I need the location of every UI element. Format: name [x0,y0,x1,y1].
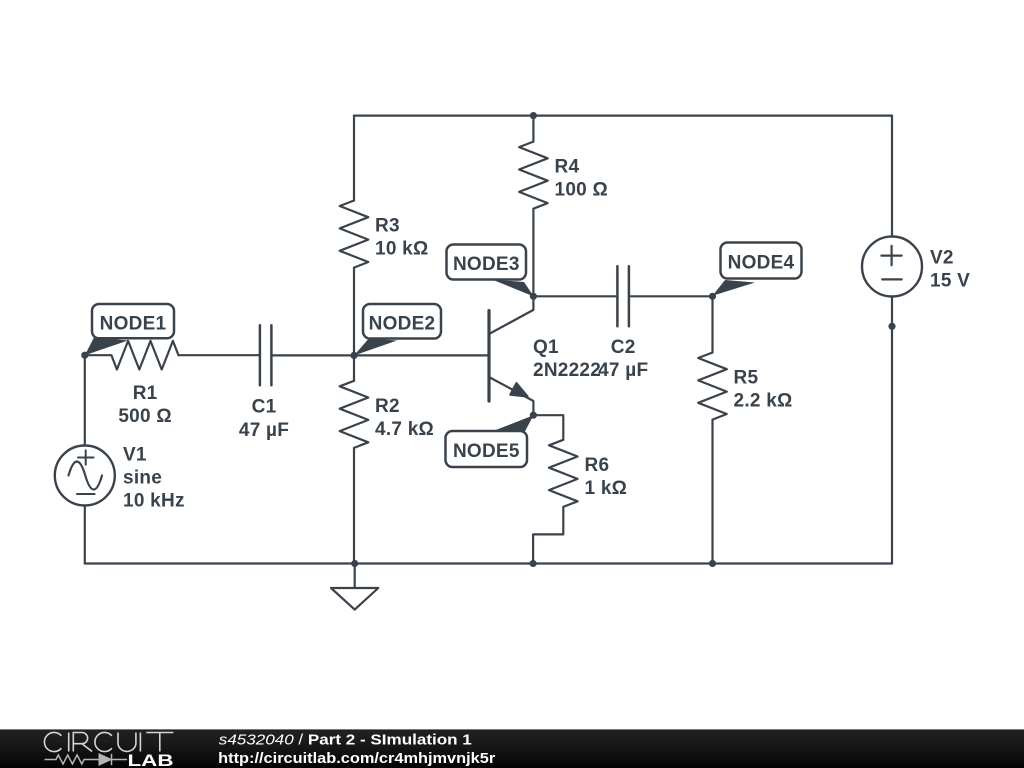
wire R5 top lead [711,296,713,352]
node A junction NODE1 [81,352,88,359]
svg-text:R5: R5 [734,367,759,388]
node junction emitter NODE5 [530,412,537,419]
V2 plus [881,246,901,265]
node junction V2 bottom [888,323,895,330]
wire ground lead [354,564,356,589]
voltage source V1 [55,446,115,506]
footer bar [0,729,1024,768]
resistor R3 [340,201,369,268]
svg-text:V2: V2 [930,247,954,268]
node junction top rail R4 [530,112,537,119]
node junction R6 bottom rail [530,560,537,567]
svg-text:2N2222: 2N2222 [533,360,601,381]
wire V2 top lead [891,116,893,237]
logo CIRCUIT wordmark [44,732,173,751]
svg-text:NODE1: NODE1 [100,313,167,334]
svg-text:10 kHz: 10 kHz [123,490,185,511]
node junction R5 bottom rail [709,560,716,567]
wire collector row to C2 [533,295,617,297]
svg-text:http://circuitlab.com/cr4mhjmv: http://circuitlab.com/cr4mhjmvnjk5r [218,750,495,767]
svg-text:R2: R2 [375,396,400,417]
svg-text:NODE3: NODE3 [453,254,520,275]
label R3 value [375,215,428,259]
svg-text:R4: R4 [555,157,580,178]
wire R2 bottom lead [353,448,355,563]
node junction collector NODE3 [530,293,537,300]
V2 minus [882,278,902,280]
wire top rail [354,114,892,116]
svg-text:15 V: 15 V [930,271,970,292]
node NODE1 flag [85,304,174,355]
wire R1 to C1 [179,354,260,356]
node NODE2 flag [354,304,441,356]
svg-text:500 Ω: 500 Ω [118,406,171,427]
label R1 value [118,383,171,427]
wire R6 bottom lead [533,507,563,563]
label R5 value [734,367,793,411]
node NODE4 flag [713,243,802,296]
label R4 value [555,157,608,201]
node NODE5 flag [446,415,534,467]
resistor R2 [340,381,369,448]
svg-text:C1: C1 [252,397,277,418]
wire bottom rail [85,562,892,564]
transistor Q1 [489,296,533,415]
svg-text:NODE4: NODE4 [728,253,795,274]
svg-text:10 kΩ: 10 kΩ [375,238,428,259]
svg-text:NODE2: NODE2 [369,313,436,334]
voltage source V2 [862,237,922,297]
wire V1 top lead [84,355,86,445]
wire R5 bottom lead [711,420,713,564]
wire V2 bottom lead [891,297,893,564]
wire C1 to NODE2 [271,354,354,356]
svg-text:R1: R1 [133,383,158,404]
wire R4 top lead [532,116,534,142]
resistor R6 [549,440,578,507]
svg-text:C2: C2 [611,337,636,358]
svg-text:s4532040 / Part 2 - SImulation: s4532040 / Part 2 - SImulation 1 [219,731,472,748]
wire R2 top lead [353,356,355,381]
wire emitter to R6 [533,415,563,440]
svg-text:R3: R3 [375,215,400,236]
svg-text:R6: R6 [585,455,610,476]
label R6 value [585,455,628,499]
wire base row NODE2 to Q1 [354,354,489,356]
capacitor C1 [260,325,272,385]
resistor R5 [698,353,727,420]
svg-text:sine: sine [123,467,162,488]
node junction NODE4 [709,293,716,300]
svg-text:2.2 kΩ: 2.2 kΩ [734,390,793,411]
svg-text:47 µF: 47 µF [239,420,289,441]
wire R3 bottom lead [353,268,355,356]
svg-text:4.7 kΩ: 4.7 kΩ [375,419,434,440]
svg-text:LAB: LAB [128,752,174,768]
wire V1 bottom lead [84,506,86,564]
node NODE3 flag [447,245,534,297]
wire R4 bottom lead [532,209,534,296]
ground [331,588,378,610]
svg-text:100 Ω: 100 Ω [555,180,608,201]
V1 plus [78,450,94,465]
label V2 value [930,247,970,291]
logo schematic doodle [45,754,128,765]
node junction NODE2 [350,352,357,359]
label C1 value [239,397,289,441]
svg-text:1 kΩ: 1 kΩ [585,478,628,499]
wire C2 to NODE4 [629,295,713,297]
svg-text:NODE5: NODE5 [453,441,520,462]
label R2 value [375,396,434,440]
node junction ground rail [351,560,358,567]
label V1 value [123,445,185,512]
svg-text:V1: V1 [123,445,147,466]
resistor R4 [519,142,548,209]
V1 minus [77,493,95,495]
wire R3 top lead [353,116,355,201]
svg-text:Q1: Q1 [533,337,559,358]
svg-text:47 µF: 47 µF [598,360,648,381]
V1 sine [69,462,103,490]
capacitor C2 [617,266,629,326]
label C2 value [598,337,648,381]
resistor R1 [85,341,179,370]
label Q1 value [533,337,601,381]
